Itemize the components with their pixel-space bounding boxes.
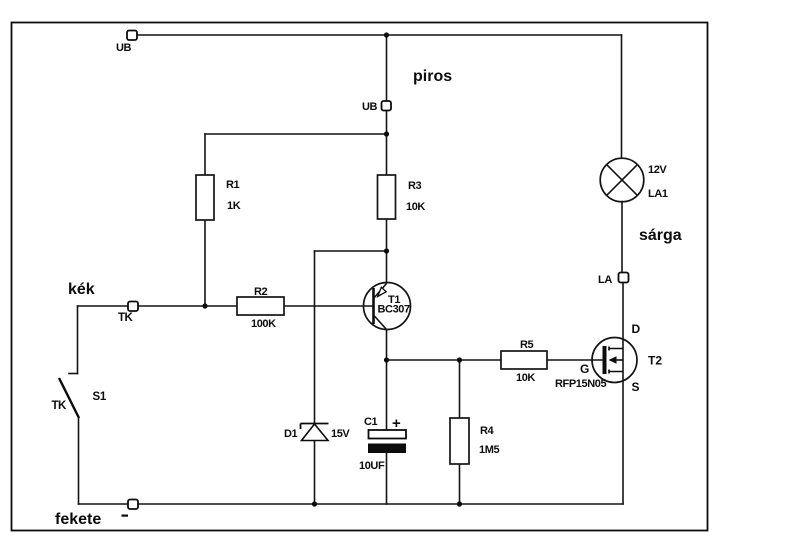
wire R1 branch horizontal [205, 133, 387, 135]
svg-text:TK: TK [52, 400, 68, 412]
svg-text:R2: R2 [254, 286, 268, 298]
wire ground rail fekete connector to T2 source [138, 503, 623, 505]
svg-text:sárga: sárga [639, 227, 682, 244]
svg-text:D: D [632, 322, 641, 336]
wire LA connector to T2 drain and source down to ground rail [622, 283, 624, 504]
svg-text:1M5: 1M5 [479, 444, 499, 456]
terminal fekete minus [122, 500, 139, 517]
svg-text:10UF: 10UF [359, 460, 385, 472]
wire R5 to T2 gate [547, 359, 603, 361]
svg-text:D1: D1 [284, 428, 298, 440]
wire R2 to T1 base [284, 305, 374, 307]
wire T1 collector drop [386, 330, 388, 361]
svg-text:10K: 10K [406, 201, 425, 213]
transistor T1 BC307 [364, 283, 411, 330]
junction collector node [384, 357, 389, 362]
wire top rail from UB terminal to lamp branch corner [137, 34, 622, 36]
svg-text:piros: piros [413, 68, 452, 85]
svg-text:fekete: fekete [55, 511, 101, 528]
junction D1 ground node [312, 501, 317, 506]
svg-text:RFP15N05: RFP15N05 [555, 378, 606, 390]
svg-text:R3: R3 [408, 180, 422, 192]
svg-text:10K: 10K [516, 372, 535, 384]
svg-text:R5: R5 [520, 339, 534, 351]
terminal UB middle [362, 101, 391, 113]
svg-text:kék: kék [68, 281, 95, 298]
wire switch bottom to ground rail [78, 418, 80, 504]
terminal UB top-left [116, 31, 137, 55]
svg-text:100K: 100K [251, 318, 276, 330]
wire kek rail TK connector to R2 [138, 305, 237, 307]
wire collector node to R5 [387, 359, 502, 361]
wire kek rail left of TK connector [78, 305, 129, 307]
wire D1 to ground rail [314, 441, 316, 504]
wire switch branch drop [77, 306, 79, 374]
svg-text:S1: S1 [93, 391, 107, 403]
capacitor C1 10UF [359, 415, 406, 472]
resistor R3 [378, 175, 426, 219]
wire zener branch horizontal [315, 250, 387, 252]
terminal TK [118, 302, 138, 325]
wire R1 bottom to kek node [204, 220, 206, 305]
MOSFET T2 RFP15N05 [555, 322, 662, 394]
svg-text:15V: 15V [331, 428, 350, 440]
junction R1 branch node [384, 131, 389, 136]
svg-text:G: G [580, 362, 589, 376]
terminal LA [598, 273, 629, 287]
wire C1 to ground rail [386, 453, 388, 504]
wire lamp bottom to LA connector [621, 202, 623, 273]
junction R4 top node [457, 357, 462, 362]
svg-text:LA1: LA1 [648, 188, 668, 200]
switch S1 [52, 378, 107, 418]
svg-text:UB: UB [362, 101, 378, 113]
svg-text:R4: R4 [480, 425, 495, 437]
junction zener branch node [384, 248, 389, 253]
wire R1 branch vertical to R1 top [204, 134, 206, 175]
svg-text:T2: T2 [648, 354, 662, 368]
wire R3 bottom to T1 emitter [386, 219, 388, 283]
resistor R5 [501, 339, 547, 384]
wire R4 bottom to ground rail [459, 464, 461, 504]
wire switch top contact tick [69, 373, 78, 375]
wire from UB mid connector to R3 top [386, 110, 388, 175]
wire lamp branch drop [621, 35, 623, 158]
svg-text:R1: R1 [226, 179, 240, 191]
svg-text:C1: C1 [364, 416, 378, 428]
wire node to R4 top [459, 360, 461, 418]
svg-text:TK: TK [118, 312, 134, 324]
resistor R4 [450, 418, 499, 464]
wire zener branch vertical [314, 251, 316, 423]
svg-text:1K: 1K [227, 200, 241, 212]
svg-text:UB: UB [116, 42, 132, 54]
svg-text:+: + [392, 415, 401, 432]
resistor R1 [196, 175, 241, 220]
resistor R2 [237, 286, 284, 330]
svg-text:S: S [632, 380, 640, 394]
svg-text:12V: 12V [648, 164, 667, 176]
wire from top rail down to UB mid connector [386, 35, 388, 101]
svg-text:LA: LA [598, 274, 612, 286]
junction R4 ground node [457, 501, 462, 506]
svg-text:BC307: BC307 [378, 304, 411, 316]
wire collector node to C1 [386, 360, 388, 430]
lamp LA1 12V [600, 158, 668, 202]
zener diode D1 15V [284, 424, 350, 441]
junction top rail node [384, 32, 389, 37]
wire ground rail left of fekete connector [79, 503, 129, 505]
junction kek R1 node [202, 303, 207, 308]
